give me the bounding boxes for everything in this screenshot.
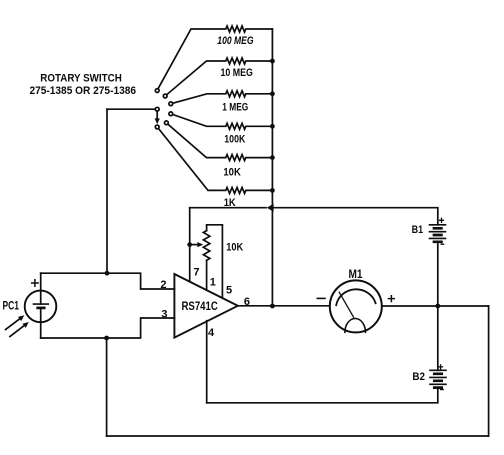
photocell PC1 — [25, 291, 57, 323]
svg-text:1: 1 — [210, 277, 216, 289]
junction dot 1K — [270, 188, 275, 193]
meter needle — [339, 292, 353, 317]
resistor R3 1 MEG — [173, 91, 273, 103]
switch contact 2 — [163, 94, 167, 98]
svg-text:10 MEG: 10 MEG — [221, 67, 253, 79]
wire right rail — [488, 306, 490, 436]
wire B2 to V- rail — [207, 388, 438, 403]
switch contact 1 — [155, 89, 159, 93]
arrowhead at bus — [267, 204, 274, 212]
junction dot output bus — [270, 304, 275, 309]
PC1 plus sign — [32, 280, 38, 286]
wire switch pole down — [106, 109, 108, 273]
switch contact 5 — [165, 121, 169, 125]
meter plus sign — [389, 296, 395, 302]
potentiometer wiper arrow — [190, 244, 199, 246]
junction dot wiper — [187, 242, 192, 247]
svg-text:PC1: PC1 — [3, 299, 20, 313]
svg-text:100K: 100K — [224, 134, 245, 146]
wire PC1 bottom down — [106, 338, 108, 436]
wire pin 4 — [206, 321, 208, 403]
wire PC1 loop top — [41, 273, 175, 289]
wire pin 7 — [189, 208, 191, 282]
junction dot 1MEG — [270, 91, 275, 96]
battery B2 — [412, 365, 446, 390]
svg-text:275-1385 OR 275-1386: 275-1385 OR 275-1386 — [30, 85, 137, 97]
svg-text:B1: B1 — [412, 224, 424, 236]
resistor R4 100K — [173, 115, 273, 130]
svg-text:4: 4 — [208, 327, 215, 339]
PC1 cell top lead — [40, 273, 42, 304]
junction dot battery rail — [435, 304, 440, 309]
wire pole feed — [107, 108, 155, 110]
resistor R6 1K — [159, 129, 273, 194]
meter scale arc — [336, 289, 375, 305]
wire feedback top — [190, 207, 266, 209]
switch pole contact — [155, 107, 159, 111]
resistor R2 10 MEG — [167, 58, 273, 95]
wire output rail to B2 — [437, 306, 439, 370]
svg-text:100 MEG: 100 MEG — [217, 35, 254, 47]
battery B1 — [412, 218, 446, 244]
wire pot top to pin 5 — [207, 225, 223, 298]
wire bottom rail — [107, 435, 489, 437]
svg-text:ROTARY SWITCH: ROTARY SWITCH — [40, 72, 122, 84]
switch contact 3 — [169, 102, 173, 106]
PC1 cell bottom lead — [40, 309, 42, 338]
switch wiper arrow — [156, 112, 158, 120]
junction dot PC1 bottom — [104, 336, 109, 341]
wire V+ rail to B1 — [272, 208, 437, 225]
junction dot 100K — [270, 124, 275, 129]
meter minus sign — [317, 297, 325, 299]
op-amp U1 RS741C — [174, 274, 237, 338]
svg-text:7: 7 — [193, 267, 199, 279]
PC1 cell long plate — [34, 303, 49, 305]
svg-text:10K: 10K — [223, 166, 240, 178]
meter pivot — [345, 319, 366, 333]
junction dot 10K — [270, 155, 275, 160]
svg-text:M1: M1 — [349, 269, 364, 281]
svg-text:10K: 10K — [226, 241, 243, 253]
svg-text:RS741C: RS741C — [182, 301, 218, 313]
switch contact 6 — [155, 125, 159, 129]
junction dot PC1 top — [105, 271, 110, 276]
meter M1 — [330, 280, 382, 332]
wire pot bottom to pin 1 — [206, 260, 208, 290]
light arrow 2 — [10, 326, 24, 337]
potentiometer 10K — [203, 231, 209, 261]
resistor R5 10K — [168, 124, 272, 160]
resistor R1 100 MEG — [158, 26, 272, 89]
node resistor bus — [271, 29, 273, 306]
wire PC1 loop bottom — [41, 318, 175, 338]
svg-text:5: 5 — [226, 284, 232, 296]
svg-text:1 MEG: 1 MEG — [222, 102, 248, 114]
wire output — [238, 305, 489, 307]
PC1 cell short plate — [38, 307, 45, 310]
svg-text:B2: B2 — [412, 371, 425, 383]
rotary switch label — [30, 72, 137, 97]
light arrow 1 — [6, 319, 20, 330]
switch contact 4 — [169, 112, 173, 116]
junction dot 10MEG — [270, 59, 275, 64]
wire B1 to output rail — [437, 242, 439, 306]
